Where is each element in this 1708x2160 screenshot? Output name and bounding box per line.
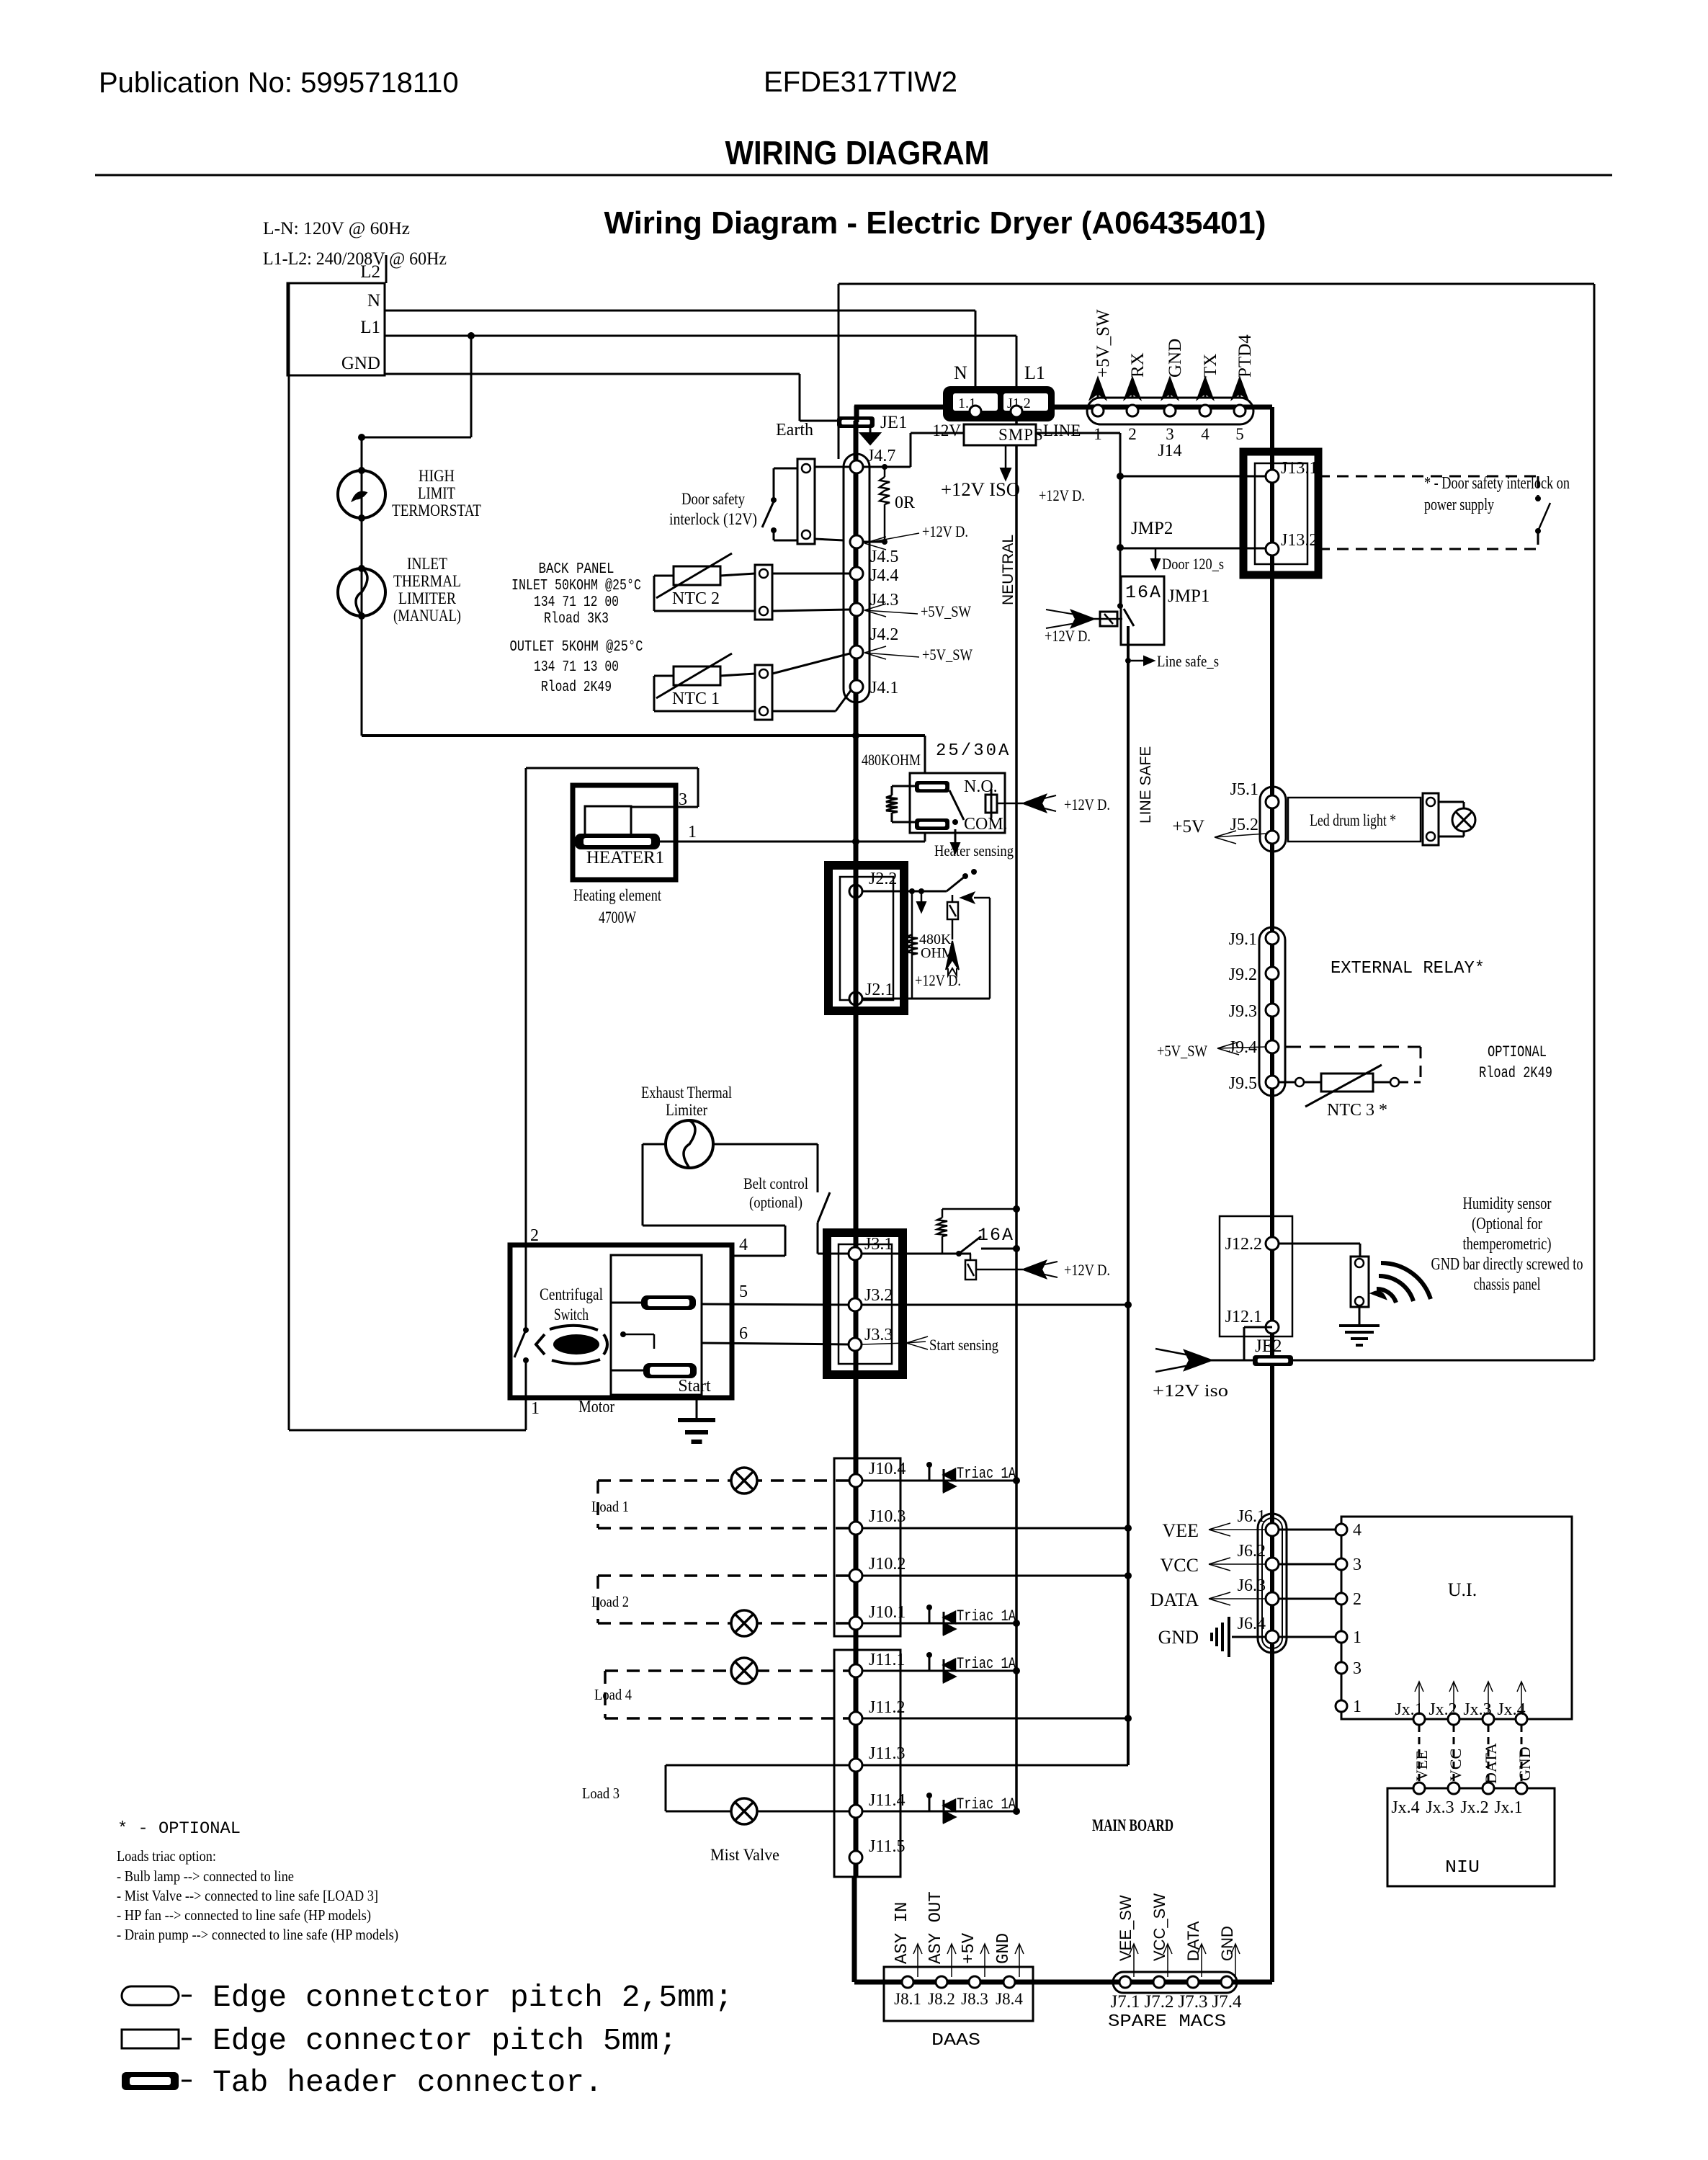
svg-text:RX: RX xyxy=(1128,352,1148,378)
svg-text:J14: J14 xyxy=(1158,442,1181,460)
svg-text:INLET: INLET xyxy=(407,555,447,573)
svg-text:Heating element: Heating element xyxy=(573,886,661,904)
svg-text:J3.3: J3.3 xyxy=(864,1326,893,1344)
svg-text:4: 4 xyxy=(1353,1521,1362,1540)
svg-text:+5V_SW: +5V_SW xyxy=(921,602,971,620)
svg-text:VEE: VEE xyxy=(1162,1520,1199,1541)
svg-text:Rload 2K49: Rload 2K49 xyxy=(1479,1064,1552,1082)
svg-text:Rload 3K3: Rload 3K3 xyxy=(544,611,609,628)
svg-text:Centrifugal: Centrifugal xyxy=(540,1285,603,1303)
svg-text:J4.1: J4.1 xyxy=(870,679,898,697)
svg-text:BACK PANEL: BACK PANEL xyxy=(539,561,614,578)
svg-text:1: 1 xyxy=(531,1399,540,1418)
svg-text:* - OPTIONAL: * - OPTIONAL xyxy=(117,1819,241,1838)
svg-text:Jx.2: Jx.2 xyxy=(1460,1798,1488,1817)
svg-text:J6.2: J6.2 xyxy=(1238,1542,1266,1561)
svg-text:LINE SAFE: LINE SAFE xyxy=(1137,746,1154,824)
svg-text:1: 1 xyxy=(1353,1697,1362,1716)
svg-text:J2.2: J2.2 xyxy=(869,870,897,888)
svg-text:GND: GND xyxy=(1218,1926,1236,1961)
svg-text:J13.1: J13.1 xyxy=(1281,459,1318,478)
svg-text:Door 120_s: Door 120_s xyxy=(1162,555,1224,573)
svg-text:J4.5: J4.5 xyxy=(870,548,898,566)
svg-text:JMP1: JMP1 xyxy=(1168,586,1210,606)
svg-text:J4.7: J4.7 xyxy=(867,447,895,465)
svg-text:Belt control: Belt control xyxy=(743,1174,808,1192)
svg-text:Triac 1A: Triac 1A xyxy=(957,1795,1016,1813)
svg-text:J11.4: J11.4 xyxy=(869,1791,905,1810)
svg-text:INLET 50KOHM @25°C: INLET 50KOHM @25°C xyxy=(511,578,641,594)
svg-text:Jx.4: Jx.4 xyxy=(1391,1798,1419,1817)
svg-text:GND: GND xyxy=(1516,1746,1534,1781)
svg-text:3: 3 xyxy=(1166,425,1174,443)
svg-text:TERMORSTAT: TERMORSTAT xyxy=(392,501,481,519)
svg-text:Led drum light *: Led drum light * xyxy=(1310,811,1396,829)
svg-text:J7.1: J7.1 xyxy=(1111,1992,1140,2012)
svg-text:J7.4: J7.4 xyxy=(1212,1992,1242,2012)
svg-text:5: 5 xyxy=(1235,425,1244,443)
svg-text:J4.4: J4.4 xyxy=(870,566,898,585)
svg-text:- Mist Valve --> connected to: - Mist Valve --> connected to line safe … xyxy=(117,1887,378,1904)
svg-text:Publication No: 5995718110: Publication No: 5995718110 xyxy=(99,67,459,99)
svg-text:2: 2 xyxy=(1353,1590,1362,1609)
svg-text:Triac 1A: Triac 1A xyxy=(957,1655,1016,1673)
svg-text:EFDE317TIW2: EFDE317TIW2 xyxy=(764,66,957,98)
svg-text:Earth: Earth xyxy=(776,421,813,439)
svg-text:SPARE MACS: SPARE MACS xyxy=(1108,2012,1226,2032)
svg-text:J8.4: J8.4 xyxy=(996,1990,1023,2008)
svg-text:OPTIONAL: OPTIONAL xyxy=(1488,1043,1547,1061)
svg-text:VEE: VEE xyxy=(1413,1750,1431,1781)
svg-text:134 71 13 00: 134 71 13 00 xyxy=(534,659,619,676)
svg-text:LINE: LINE xyxy=(1043,421,1081,439)
svg-text:Triac 1A: Triac 1A xyxy=(957,1607,1016,1625)
svg-text:Loads triac option:: Loads triac option: xyxy=(117,1847,216,1865)
svg-text:2: 2 xyxy=(1128,425,1137,443)
svg-text:J6.3: J6.3 xyxy=(1238,1576,1266,1595)
svg-text:J9.2: J9.2 xyxy=(1229,965,1257,984)
svg-text:480KOHM: 480KOHM xyxy=(862,751,921,769)
svg-text:GND bar directly screwed to: GND bar directly screwed to xyxy=(1431,1255,1583,1274)
svg-text:Jx.1: Jx.1 xyxy=(1494,1798,1522,1817)
svg-text:Edge connetctor pitch 2,5mm;: Edge connetctor pitch 2,5mm; xyxy=(213,1980,733,2015)
svg-text:5: 5 xyxy=(739,1282,748,1301)
svg-text:J11.2: J11.2 xyxy=(869,1698,905,1717)
svg-text:N: N xyxy=(367,291,380,311)
svg-text:J8.1: J8.1 xyxy=(894,1990,921,2008)
svg-text:JMP2: JMP2 xyxy=(1131,519,1173,538)
svg-text:VCC: VCC xyxy=(1161,1555,1199,1576)
svg-text:interlock (12V): interlock (12V) xyxy=(669,510,757,528)
svg-text:+12V iso: +12V iso xyxy=(1153,1382,1228,1401)
svg-text:N: N xyxy=(954,362,967,383)
svg-text:2: 2 xyxy=(530,1226,539,1245)
svg-text:+12V D.: +12V D. xyxy=(922,522,968,540)
svg-text:L1: L1 xyxy=(1024,362,1045,383)
svg-text:Load 4: Load 4 xyxy=(594,1686,632,1703)
svg-text:12V: 12V xyxy=(932,421,961,439)
svg-text:J12.2: J12.2 xyxy=(1225,1235,1262,1254)
svg-text:GND: GND xyxy=(341,354,380,373)
svg-text:VCC_SW: VCC_SW xyxy=(1150,1893,1168,1961)
svg-text:J9.5: J9.5 xyxy=(1229,1074,1257,1093)
svg-text:LIMITER: LIMITER xyxy=(398,589,457,607)
svg-text:VEE_SW: VEE_SW xyxy=(1117,1895,1135,1961)
svg-text:chassis panel: chassis panel xyxy=(1474,1275,1541,1294)
svg-text:+5V_SW: +5V_SW xyxy=(1094,309,1113,378)
svg-text:SMPS: SMPS xyxy=(998,426,1044,444)
svg-text:(optional): (optional) xyxy=(749,1193,802,1211)
svg-text:L-N: 120V @ 60Hz: L-N: 120V @ 60Hz xyxy=(263,219,410,238)
svg-text:GND: GND xyxy=(1158,1627,1199,1648)
svg-text:J11.3: J11.3 xyxy=(869,1744,905,1763)
svg-text:NTC 1: NTC 1 xyxy=(672,689,720,708)
svg-text:1: 1 xyxy=(688,823,697,842)
svg-text:DATA: DATA xyxy=(1184,1921,1202,1961)
svg-text:power supply: power supply xyxy=(1424,496,1494,514)
svg-text:Jx.4: Jx.4 xyxy=(1497,1700,1525,1719)
svg-text:J6.1: J6.1 xyxy=(1238,1507,1266,1526)
svg-text:J5.1: J5.1 xyxy=(1230,780,1258,799)
svg-text:JE2: JE2 xyxy=(1255,1336,1282,1356)
svg-text:J10.2: J10.2 xyxy=(869,1555,906,1574)
svg-text:HIGH: HIGH xyxy=(419,467,455,485)
svg-text:Door safety: Door safety xyxy=(681,490,745,508)
svg-text:NTC 3 *: NTC 3 * xyxy=(1327,1101,1387,1120)
svg-text:J6.4: J6.4 xyxy=(1238,1615,1266,1633)
svg-text:WIRING DIAGRAM: WIRING DIAGRAM xyxy=(725,134,990,171)
svg-text:- HP fan --> connected to line: - HP fan --> connected to line safe (HP … xyxy=(117,1906,371,1924)
svg-text:Jx.1: Jx.1 xyxy=(1395,1700,1423,1719)
svg-text:MAIN BOARD: MAIN BOARD xyxy=(1092,1816,1173,1834)
svg-text:+12V D.: +12V D. xyxy=(1064,795,1110,813)
svg-text:TX: TX xyxy=(1201,354,1220,378)
svg-text:LIMIT: LIMIT xyxy=(418,484,455,502)
svg-text:NTC 2: NTC 2 xyxy=(672,589,720,608)
svg-text:DAAS: DAAS xyxy=(931,2031,980,2050)
svg-text:Wiring Diagram - Electric Drye: Wiring Diagram - Electric Dryer (A064354… xyxy=(604,205,1266,241)
svg-text:16A: 16A xyxy=(1125,582,1162,603)
svg-text:HEATER1: HEATER1 xyxy=(586,848,664,867)
svg-text:J10.1: J10.1 xyxy=(869,1603,906,1622)
svg-text:J7.2: J7.2 xyxy=(1145,1992,1174,2012)
svg-text:4: 4 xyxy=(739,1236,748,1254)
svg-text:themperometric): themperometric) xyxy=(1463,1235,1552,1254)
svg-text:J8.2: J8.2 xyxy=(928,1990,955,2008)
svg-text:J2.1: J2.1 xyxy=(865,981,893,999)
svg-text:+5V_SW: +5V_SW xyxy=(1157,1042,1207,1060)
svg-text:6: 6 xyxy=(739,1324,748,1343)
svg-text:134 71 12 00: 134 71 12 00 xyxy=(534,594,619,611)
svg-text:J12.1: J12.1 xyxy=(1225,1308,1262,1326)
svg-text:* - Door safety interlock on: * - Door safety interlock on xyxy=(1424,474,1570,493)
svg-text:Line safe_s: Line safe_s xyxy=(1157,652,1219,670)
svg-text:NIU: NIU xyxy=(1445,1858,1480,1878)
svg-text:Limiter: Limiter xyxy=(666,1101,707,1119)
svg-text:3: 3 xyxy=(1353,1556,1362,1574)
svg-text:(MANUAL): (MANUAL) xyxy=(393,607,461,625)
svg-text:J3.2: J3.2 xyxy=(864,1286,893,1305)
svg-text:OUTLET 5KOHM @25°C: OUTLET 5KOHM @25°C xyxy=(510,639,643,656)
svg-text:Tab header connector.: Tab header connector. xyxy=(213,2065,603,2100)
svg-text:Triac 1A: Triac 1A xyxy=(957,1465,1016,1483)
svg-text:+5V: +5V xyxy=(960,1932,979,1964)
svg-text:Switch: Switch xyxy=(554,1306,589,1324)
svg-text:+12V D.: +12V D. xyxy=(1064,1261,1110,1279)
svg-text:16A: 16A xyxy=(978,1225,1014,1246)
svg-text:N.O.: N.O. xyxy=(964,777,998,796)
svg-text:Motor: Motor xyxy=(578,1398,614,1416)
svg-text:Mist Valve: Mist Valve xyxy=(710,1846,779,1864)
svg-text:J9.1: J9.1 xyxy=(1229,930,1257,949)
svg-text:L1: L1 xyxy=(360,318,380,337)
svg-text:Load 2: Load 2 xyxy=(591,1593,629,1610)
svg-text:Humidity sensor: Humidity sensor xyxy=(1463,1195,1552,1213)
svg-text:GND: GND xyxy=(994,1933,1014,1964)
svg-text:J11.5: J11.5 xyxy=(869,1837,905,1856)
svg-text:4700W: 4700W xyxy=(599,909,636,927)
svg-text:Jx.2: Jx.2 xyxy=(1428,1700,1457,1719)
svg-text:GND: GND xyxy=(1166,339,1185,378)
svg-text:+5V_SW: +5V_SW xyxy=(922,646,973,664)
svg-text:(Optional for: (Optional for xyxy=(1472,1215,1542,1233)
svg-text:J10.3: J10.3 xyxy=(869,1507,906,1526)
svg-text:NEUTRAL: NEUTRAL xyxy=(1000,535,1016,605)
svg-text:- Bulb lamp --> connected to l: - Bulb lamp --> connected to line xyxy=(117,1867,294,1885)
svg-text:COM.: COM. xyxy=(964,815,1008,834)
svg-text:Rload 2K49: Rload 2K49 xyxy=(541,679,612,696)
svg-text:Load 3: Load 3 xyxy=(582,1785,620,1802)
svg-text:J11.1: J11.1 xyxy=(869,1651,905,1669)
svg-text:Start: Start xyxy=(678,1377,711,1396)
svg-text:+5V: +5V xyxy=(1172,817,1204,836)
svg-text:U.I.: U.I. xyxy=(1448,1579,1477,1600)
svg-text:1: 1 xyxy=(1094,425,1102,443)
svg-text:0R: 0R xyxy=(895,494,915,512)
svg-text:L2: L2 xyxy=(360,262,380,282)
svg-text:1: 1 xyxy=(1353,1628,1362,1647)
svg-text:J9.3: J9.3 xyxy=(1229,1002,1257,1021)
svg-text:+12V D.: +12V D. xyxy=(915,971,961,989)
svg-text:J7.3: J7.3 xyxy=(1179,1992,1208,2012)
svg-text:DATA: DATA xyxy=(1150,1589,1199,1610)
svg-text:Jx.3: Jx.3 xyxy=(1463,1700,1491,1719)
svg-text:4: 4 xyxy=(1201,425,1210,443)
svg-text:JE1: JE1 xyxy=(880,413,908,432)
svg-text:Jx.3: Jx.3 xyxy=(1426,1798,1454,1817)
svg-text:+12V D.: +12V D. xyxy=(1045,627,1091,645)
svg-text:25/30A: 25/30A xyxy=(936,741,1011,761)
svg-text:- Drain pump --> connected to: - Drain pump --> connected to line safe … xyxy=(117,1926,398,1943)
svg-text:+12V ISO: +12V ISO xyxy=(941,479,1020,500)
svg-text:J8.3: J8.3 xyxy=(961,1990,988,2008)
svg-text:ASY IN: ASY IN xyxy=(893,1902,912,1964)
svg-text:Edge connector pitch 5mm;: Edge connector pitch 5mm; xyxy=(213,2023,677,2058)
svg-text:THERMAL: THERMAL xyxy=(393,572,461,590)
svg-text:Load 1: Load 1 xyxy=(591,1498,629,1515)
svg-text:DATA: DATA xyxy=(1482,1743,1500,1784)
svg-text:+12V D.: +12V D. xyxy=(1039,486,1085,504)
svg-text:Exhaust Thermal: Exhaust Thermal xyxy=(641,1084,732,1102)
svg-text:J3.1: J3.1 xyxy=(864,1235,893,1254)
svg-text:EXTERNAL RELAY*: EXTERNAL RELAY* xyxy=(1331,959,1485,978)
svg-text:J13.2: J13.2 xyxy=(1281,531,1318,550)
svg-text:VCC: VCC xyxy=(1447,1749,1465,1781)
svg-text:3: 3 xyxy=(679,790,687,809)
svg-text:3: 3 xyxy=(1353,1659,1362,1678)
svg-text:L1-L2: 240/208V @ 60Hz: L1-L2: 240/208V @ 60Hz xyxy=(263,249,447,269)
svg-text:ASY OUT: ASY OUT xyxy=(926,1891,946,1964)
svg-text:Heater sensing: Heater sensing xyxy=(934,842,1014,860)
svg-text:Start sensing: Start sensing xyxy=(929,1336,998,1354)
svg-text:J10.4: J10.4 xyxy=(869,1460,906,1478)
svg-text:J4.2: J4.2 xyxy=(870,625,898,644)
svg-text:PTD4: PTD4 xyxy=(1235,334,1255,378)
